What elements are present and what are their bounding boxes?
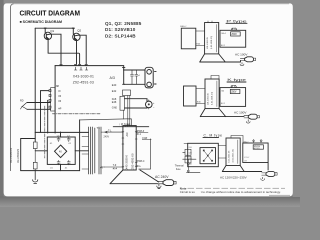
capacitor C7 [67,137,70,142]
component box 250V [231,32,241,36]
connector E48 pad block [123,90,131,96]
svg-text:D1: S25VB10: D1: S25VB10 [105,27,136,32]
transformer K [205,79,219,109]
transformer skirt P [200,54,226,62]
capacitor C8 [57,137,60,142]
svg-text:#V: #V [100,167,103,170]
fuse bump K [231,85,237,87]
bridge rectifier D1 [55,145,67,158]
transistor Q1 [44,28,51,39]
transformer T1 windings [89,127,102,174]
svg-text:##0: ##0 [189,147,192,149]
capacitor C5 [67,160,70,165]
svg-text:CIRCUIT DIAGRAM: CIRCUIT DIAGRAM [20,8,81,17]
svg-text:OE AB90/2N: OE AB90/2N [17,149,20,163]
wire bottom bus [21,170,80,172]
wire pads to board [128,96,130,126]
winding stubs left [82,137,89,170]
wire to board top [80,119,132,126]
svg-text:Q2: Q2 [77,28,81,32]
svg-text:E#J: E#J [221,45,225,47]
svg-text:E48: E48 [112,101,117,104]
wire Q1 collector [50,34,61,64]
wire bridge to T1 [75,150,88,152]
AC outlet loop [21,139,36,171]
wire speaker top [124,69,145,71]
wire Q2 emitter [76,53,78,64]
svg-text:#20: #20 [189,152,192,154]
ground plug K [246,120,250,124]
selector pin labels [189,147,192,166]
rect right K [220,88,246,107]
transformer skirt CM [222,166,244,172]
junction ticks top rail [44,27,74,29]
wire rectifier top rail [35,131,88,133]
svg-text:Q1: Q1 [50,29,54,33]
svg-text:AC 120V/220~230V: AC 120V/220~230V [220,176,247,180]
lamp L1 [146,100,153,109]
note block [180,186,290,195]
transformer CM [226,138,240,166]
wire selector to transformer [218,146,226,159]
plug CM [262,171,277,176]
svg-text:fuse: fuse [176,168,181,171]
connector CN1 block [120,96,125,110]
wire A/3 feed [55,66,124,70]
ground plug P [240,63,244,66]
svg-text:#40: #40 [221,90,224,92]
outlet fuse 1 [33,142,37,162]
wire T-L arrow [105,131,123,133]
svg-text:#40: #40 [189,164,192,166]
selector outer box [188,143,219,166]
wire top rail [35,27,73,29]
wire long vertical mid [54,66,56,133]
svg-text:##0: ##0 [189,158,192,160]
svg-text:Z92-4591-03: Z92-4591-03 [73,80,94,84]
wire CN8 pin1 to rail [41,91,50,133]
winding stubs right [101,132,105,167]
component box CM [253,145,263,149]
rect right P [220,30,246,47]
wire to plug CM [244,163,268,172]
svg-text:OE 230/600N: OE 230/600N [10,148,13,163]
transformer skirt main [110,170,159,184]
svg-text:(L01-4001-15): (L01-4001-15) [212,92,214,105]
transformer skirt K [200,109,226,117]
svg-text:X43-3030-01: X43-3030-01 [73,74,94,78]
wire right vertical [79,120,81,171]
wire outlet to transformer [196,89,205,104]
svg-text:t to change without notice due: t to change without notice due to advanc… [201,190,281,194]
capacitor C cluster [131,70,138,84]
ground plug CM [261,177,265,180]
jumper loop K [211,76,219,80]
svg-text:Q1, Q2: 2N5885: Q1, Q2: 2N5885 [105,21,142,26]
svg-text:A/3: A/3 [125,132,129,136]
connector pins below [74,67,87,70]
svg-text:#I: #I [58,90,60,93]
outlet fuse 2 [33,162,37,170]
wire F fuse down [139,139,151,169]
page sheet [4,3,294,197]
svg-text:A/3: A/3 [110,76,115,80]
rect right CM [243,143,268,163]
svg-text:(L01-4002-15): (L01-4002-15) [233,149,235,162]
wire Q2 collector [78,35,86,64]
pad E40 [123,83,125,85]
svg-text:D2: SLP144B: D2: SLP144B [105,33,136,38]
outlet box left [184,86,197,106]
wire transformer top loop [231,136,243,144]
svg-text:Z92-4591-00: Z92-4591-00 [131,153,135,169]
voltage selector [200,148,216,164]
thermal fuse symbol [183,144,200,173]
wire bridge left stub [35,150,47,152]
component box K [230,89,240,93]
fuse bump CM [253,140,262,143]
wire CN1 stub [123,110,125,119]
parts list [105,21,142,38]
svg-text:#I-L: #I-L [137,165,142,168]
svg-text:250V: 250V [231,34,237,36]
wire left rail [34,28,36,142]
svg-text:250V: 250V [231,92,237,94]
svg-text:■ SCHEMATIC DIAGRAM: ■ SCHEMATIC DIAGRAM [20,20,63,24]
board outline dash [52,113,100,115]
outlet box left [181,28,196,49]
svg-text:L01-4001-05: L01-4001-05 [207,92,209,105]
ground main left [33,171,38,184]
svg-text:#40-4: #40-4 [221,33,226,35]
svg-text:SW250: SW250 [254,146,260,148]
wire speaker bottom [124,70,145,84]
svg-text:#I-1: #I-1 [137,133,142,136]
svg-text:PW8-C: PW8-C [137,160,145,163]
svg-text:#I-#: #I-# [113,167,118,170]
svg-text:Circuit is su: Circuit is su [180,190,195,194]
wire bridge bottom stub [60,164,62,170]
svg-text:C, M type: C, M type [204,134,223,138]
junction bridge feed [60,132,62,137]
svg-text:###-#: ###-# [244,157,250,159]
svg-text:L01-4001-05: L01-4001-05 [207,36,209,49]
svg-text:(L01-4001-15): (L01-4001-15) [211,36,213,49]
wire lamp feeds [125,99,148,108]
svg-text:#II: #II [58,100,61,103]
svg-text:240V: 240V [104,136,110,139]
capacitor C6 [57,160,60,165]
pin labels connector2 [58,90,61,111]
board edge pins [122,132,137,167]
svg-text:#40-#: #40-# [243,142,249,144]
wire board right top [136,132,148,134]
transformer P [205,23,219,54]
power board PWB [123,126,136,170]
page edge line [11,4,14,171]
board outline dash vertical [44,106,46,158]
wire outlet to transformer [196,31,205,46]
svg-text:X43-3030-0: X43-3030-0 [125,154,129,169]
transistor Q2 [73,28,80,53]
fuse bump [231,28,237,30]
wire vertical x48 [47,100,49,133]
svg-text:E#J: E#J [221,103,225,105]
wire connector2 feeds [27,103,51,110]
ground plug main [157,184,161,189]
svg-text:AC 100V: AC 100V [234,110,247,114]
svg-text:GN0: GN0 [112,107,118,110]
svg-text:T1: T1 [97,126,101,130]
connector CN8 [49,88,55,111]
ticks transformer top [208,21,212,23]
svg-text:AC 240V: AC 240V [155,175,169,179]
speaker terminal block [145,67,156,88]
wire to plug P [225,60,240,62]
twisted pair scribble RD [21,103,28,110]
wire board lower left [105,166,123,168]
svg-text:F##: F## [142,136,147,140]
svg-text:E40: E40 [112,84,117,87]
svg-text:E42: E42 [112,90,117,93]
wire to plug K [226,116,244,118]
plug K [244,114,259,119]
svg-text:L01-4002-05: L01-4002-05 [228,150,230,163]
svg-text:AC 100V: AC 100V [235,53,248,57]
wire emitter bus [48,40,80,64]
plug P [240,57,255,62]
junction a [123,67,125,69]
connector pads main board [60,64,87,66]
svg-text:RD: RD [20,100,24,103]
selector left connectors [183,149,191,163]
plug main AC240V [158,180,177,186]
svg-text:#P: #P [58,108,61,111]
svg-text:#II: #II [58,95,61,98]
bridge box [47,137,75,164]
